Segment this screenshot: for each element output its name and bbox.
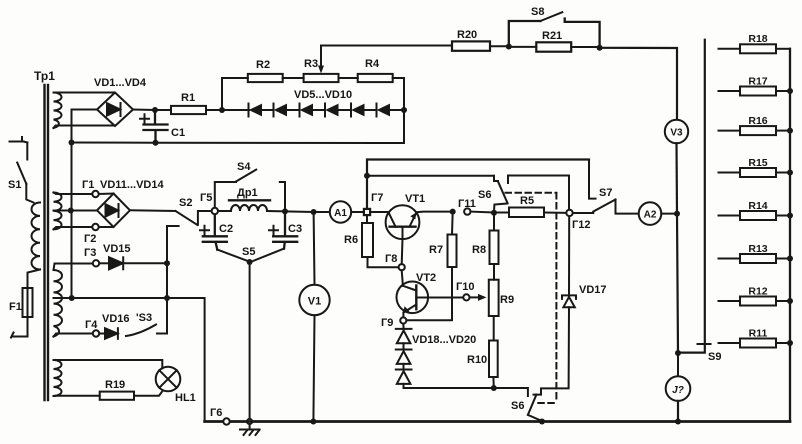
svg-text:S6: S6 <box>511 400 524 412</box>
node bus/winding B middle tap <box>68 208 74 214</box>
wire R5 to G12 <box>544 212 566 214</box>
wire C3 node to A1 <box>285 210 330 213</box>
svg-text:R20: R20 <box>457 29 477 41</box>
diode VD20 <box>396 370 412 384</box>
svg-text:Др1: Др1 <box>237 187 258 199</box>
svg-text:Г6: Г6 <box>210 407 222 419</box>
wire R19 to lamp HL1 <box>134 391 163 396</box>
svg-text:R3: R3 <box>304 58 318 70</box>
wire S5 common down to ground <box>249 262 251 419</box>
wire G11 to R8 node and R5 <box>471 211 510 214</box>
node A2/V3 column junction <box>674 211 680 217</box>
node S6b/bottom bus junction <box>539 419 545 425</box>
G10 wiper arrow into R9 <box>469 294 486 301</box>
svg-text:Г5: Г5 <box>200 192 212 204</box>
switch S6 left contact step <box>494 176 498 181</box>
node R21/S8 left junction <box>506 44 512 50</box>
wire line y=298 to corner x=204.6 <box>72 298 205 422</box>
wire VD17 to S6b contact <box>534 307 570 394</box>
terminal G6 <box>223 418 229 424</box>
diode VD15 <box>109 257 123 269</box>
wire winding D bottom to resistor R19 <box>54 395 100 397</box>
wire riser to R2 row <box>222 78 248 110</box>
svg-text:S6: S6 <box>478 189 491 201</box>
svg-text:A2: A2 <box>644 210 657 221</box>
wire top line 3 (S6 right contact to G12 column) <box>508 176 569 210</box>
svg-text:S4: S4 <box>237 161 251 173</box>
resistor R4 <box>358 74 393 82</box>
svg-text:Г9: Г9 <box>381 317 393 329</box>
node R10 bottom junction <box>491 385 497 391</box>
voltmeter V1 <box>299 285 329 315</box>
svg-text:R2: R2 <box>256 59 270 71</box>
wire R10 to bottom node <box>492 377 494 388</box>
wire bridge1 right vertex to R1 <box>133 109 171 112</box>
svg-text:Г2: Г2 <box>84 233 96 245</box>
R3 wiper arrow to top wire <box>318 46 324 74</box>
wire VD15 to x167 node <box>123 262 167 264</box>
wire G12 down to VD17 <box>568 216 570 295</box>
switch S8 branch left riser <box>509 21 541 47</box>
node R2 branch junction <box>219 107 225 113</box>
wire return bus y=143 <box>72 142 405 145</box>
capacitor C3 <box>273 214 297 248</box>
secondary winding B <box>54 193 62 230</box>
terminal G11 <box>464 208 470 214</box>
wire R7 bottom to emitter node G9 <box>406 267 452 320</box>
svg-text:VD17: VD17 <box>579 284 607 296</box>
ammeter A1 <box>330 201 351 222</box>
capacitor C2 polarity plus <box>200 226 209 235</box>
node R8 top junction <box>491 210 497 216</box>
svg-text:S8: S8 <box>531 6 544 18</box>
svg-text:VD11...VD14: VD11...VD14 <box>100 179 164 191</box>
wire R10 node to S6b left contact <box>494 388 528 396</box>
resistor R16 row <box>719 126 794 135</box>
wire top line 2 (to S6 left contact) <box>367 175 494 177</box>
selector common line S9 <box>678 40 705 353</box>
svg-text:Г11: Г11 <box>458 198 476 210</box>
bridge rectifier VD11...VD14 <box>97 194 130 228</box>
terminal G5 <box>212 208 218 214</box>
svg-text:VD15: VD15 <box>103 243 131 255</box>
node C1 top junction <box>152 107 158 113</box>
resistor R14 row <box>719 211 794 220</box>
svg-text:R21: R21 <box>542 30 562 42</box>
wire G1 to bridge2 top vertex <box>99 193 114 196</box>
svg-text:'S3: 'S3 <box>136 312 152 324</box>
diode VD10 <box>377 104 391 117</box>
switch S3 blade <box>126 325 156 337</box>
wire VT1 right lead to R7 node <box>417 211 453 214</box>
wire bridge1 left vertex to vertical bus <box>72 109 98 111</box>
wire G5 to inductor Dr1 <box>218 210 231 212</box>
svg-text:R5: R5 <box>520 195 534 207</box>
resistor R5 <box>509 208 544 218</box>
svg-text:C3: C3 <box>288 223 302 235</box>
node C3/S4 junction <box>282 208 288 214</box>
terminal G2 <box>92 224 98 230</box>
wire winding B top tap to terminal G1 <box>54 193 96 195</box>
switch S6b blade to bottom bus node <box>528 415 542 421</box>
terminal G9 <box>400 317 406 323</box>
diode VD9 <box>351 104 365 117</box>
node bus/line298 corner <box>69 295 75 301</box>
ground tap circle on bottom bus <box>247 419 252 424</box>
svg-text:R12: R12 <box>748 286 767 298</box>
wire R8 to R9 <box>493 264 495 280</box>
fuse F1 <box>23 288 33 317</box>
wire R3 wiper to R20 <box>321 45 452 47</box>
wire R2 to R3 <box>283 77 304 79</box>
wire top line 1 (G7 column to S7 contact) <box>367 160 589 212</box>
capacitor C1 <box>144 110 168 143</box>
switch S4 right stub down to node <box>280 182 285 211</box>
wire VT2 base to G10 <box>416 297 463 299</box>
inductor Dr1 winding <box>231 205 267 211</box>
wire winding B middle tap to bridge2 left vertex <box>54 210 98 212</box>
switch S7 blade <box>593 200 615 212</box>
wire R20 to node <box>490 45 509 47</box>
svg-text:R7: R7 <box>429 244 443 256</box>
switch S5 left blade <box>217 250 249 262</box>
node C1 bottom / bus junction <box>153 140 159 146</box>
wire S1 to primary winding <box>26 184 33 203</box>
ammeter A2 <box>639 202 662 225</box>
terminal G8 <box>399 264 405 270</box>
diode VD7 <box>300 104 314 117</box>
svg-text:Г7: Г7 <box>371 192 383 204</box>
svg-text:S7: S7 <box>599 187 612 199</box>
node line2 tap on G7 column <box>364 173 370 179</box>
right bus of ladder <box>789 49 791 422</box>
resistor R11 row <box>719 339 794 348</box>
diode VD19 <box>396 350 412 364</box>
dashed linkage S6 lower horizontal <box>538 402 556 404</box>
wire G12 to S7 blade pivot <box>573 212 594 214</box>
dashed linkage S6 upper horizontal <box>506 192 557 194</box>
svg-text:V1: V1 <box>308 296 321 308</box>
terminal G7 <box>364 209 370 215</box>
node VT1/R7/G11 junction <box>450 209 456 215</box>
node R21/S8 right junction <box>597 45 603 51</box>
terminal G1 <box>92 191 98 197</box>
svg-text:A1: A1 <box>334 208 347 219</box>
wire bridge2 right vertex to S2 <box>130 209 176 212</box>
transistor VT2 <box>397 282 429 314</box>
secondary winding D (lamp heater) <box>54 360 62 396</box>
primary winding of Tp1 <box>31 203 40 270</box>
terminal G4 <box>93 330 99 336</box>
wire J2 to bottom bus <box>677 401 679 422</box>
diode VD18 <box>396 329 412 343</box>
diode VD5 <box>249 104 263 117</box>
resistor R18 row <box>719 44 791 53</box>
svg-text:J?: J? <box>672 385 684 396</box>
svg-text:Г10: Г10 <box>456 281 474 293</box>
wire S7 to A2 <box>616 200 639 214</box>
wire diode chain to R10 node <box>404 384 494 388</box>
svg-text:R14: R14 <box>748 200 767 212</box>
svg-text:VT1: VT1 <box>405 193 425 205</box>
switch S2 fixed contact to G5 <box>198 211 212 225</box>
svg-text:R15: R15 <box>748 157 767 169</box>
wire VD18 to VD19 <box>403 343 405 349</box>
switch S8 right side <box>565 19 600 48</box>
svg-text:R18: R18 <box>748 33 767 45</box>
bottom bus <box>205 420 790 423</box>
svg-text:VT2: VT2 <box>416 272 436 284</box>
wire Dr1 to C3 node <box>267 210 285 212</box>
wire R9 to R10 <box>493 316 495 341</box>
wire winding B bottom tap to terminal G2 <box>54 227 96 229</box>
resistor R3 (rheostat) <box>304 74 339 82</box>
wire fuse to bottom prong <box>11 317 28 338</box>
meter J2 <box>666 376 691 401</box>
wire R3 to R4 <box>339 77 358 79</box>
diode VD6 <box>274 104 288 117</box>
wire winding A top to bridge VD1..VD4 top vertex <box>54 92 114 94</box>
switch S8 blade <box>540 12 562 21</box>
wire VT2 emitter to G9 <box>402 313 404 318</box>
wire ground stub <box>249 424 251 429</box>
switch S7 upper contact <box>589 160 596 199</box>
secondary winding A (top) <box>54 93 62 129</box>
svg-text:R16: R16 <box>748 115 767 127</box>
switch S6b blade <box>528 395 537 415</box>
wire A2 node down to S9 node <box>677 214 678 353</box>
switch S6 blade <box>498 182 508 204</box>
zener diode VD17 <box>562 295 576 307</box>
mains plug prong top <box>10 137 28 143</box>
wire R1 to diode row <box>206 109 249 111</box>
svg-text:V3: V3 <box>670 128 683 139</box>
switch S2 alternate lower contact bracket <box>167 226 179 240</box>
resistor R12 row <box>719 297 794 306</box>
wire S9 node to meter J2 <box>677 353 679 376</box>
wire G9 to diode chain <box>402 324 404 329</box>
svg-text:R4: R4 <box>365 58 380 70</box>
svg-text:Г8: Г8 <box>385 253 397 265</box>
dashed linkage S6 vertical <box>555 193 557 403</box>
wire R6 bottom to G8 <box>368 257 399 267</box>
resistor R21 <box>536 42 571 51</box>
svg-text:R13: R13 <box>748 243 767 255</box>
resistor R9 <box>489 280 499 316</box>
node S5 common <box>247 259 253 265</box>
lamp HL1 <box>156 367 181 392</box>
diode VD8 <box>325 104 339 117</box>
svg-text:R17: R17 <box>748 76 767 88</box>
svg-text:C2: C2 <box>219 223 233 235</box>
wire node to R8 <box>493 213 495 231</box>
svg-text:R10: R10 <box>467 354 487 366</box>
resistor R2 <box>248 74 283 82</box>
svg-text:R11: R11 <box>749 328 768 340</box>
svg-text:Г4: Г4 <box>85 319 98 331</box>
resistor R1 <box>171 106 206 114</box>
vertical bus left (x=71.5) <box>71 110 73 299</box>
svg-text:VD18...VD20: VD18...VD20 <box>412 334 476 346</box>
svg-text:HL1: HL1 <box>175 392 196 404</box>
terminal G3 <box>93 260 99 266</box>
wire winding A bottom to bridge VD1..VD4 bottom vertex <box>54 126 114 129</box>
svg-text:F1: F1 <box>9 301 22 313</box>
switch S3 fixed contact stub <box>157 333 167 335</box>
wire VT1 base to G8 <box>401 239 404 264</box>
wire R21 to right node <box>571 46 599 48</box>
diode VD16 <box>105 328 118 339</box>
resistor R13 row <box>719 254 794 263</box>
svg-text:S9: S9 <box>708 351 721 363</box>
capacitor C1 polarity plus <box>140 114 149 123</box>
capacitor C2 <box>203 214 227 249</box>
svg-text:R8: R8 <box>472 244 486 256</box>
secondary winding C <box>54 270 63 337</box>
terminal G10 <box>463 294 469 300</box>
switch S1 <box>17 163 26 184</box>
switch S5 right blade <box>250 249 284 262</box>
transformer Tp1 core <box>45 85 49 400</box>
resistor R7 <box>448 235 457 268</box>
wire V3 to A2 node <box>675 143 678 213</box>
svg-text:C1: C1 <box>171 127 185 139</box>
svg-text:VD5...VD10: VD5...VD10 <box>294 89 352 101</box>
resistor R6 <box>362 215 373 257</box>
wire G8 to VT2 collector <box>402 270 403 286</box>
wire A1 to G7 <box>351 211 364 213</box>
switch S4 branch left riser from G5 <box>215 182 236 208</box>
resistor R19 <box>100 392 134 400</box>
svg-text:VD1...VD4: VD1...VD4 <box>94 77 147 89</box>
wire V1 to bottom bus <box>313 315 314 421</box>
wire diode row segments <box>262 109 404 111</box>
switch S2 blade <box>176 211 198 225</box>
ground symbol <box>240 430 260 436</box>
node J2/bottom bus junction <box>675 419 681 425</box>
node V1 branch junction <box>311 209 317 215</box>
wire winding D top to lamp HL1 <box>54 360 163 368</box>
wire VD19 to VD20 <box>403 364 405 370</box>
wire V1 branch upper <box>313 212 316 285</box>
wire A2 to V3 column <box>661 213 677 215</box>
transistor VT1 <box>386 205 420 239</box>
svg-text:Г3: Г3 <box>84 247 96 259</box>
switch S9 wiper bar <box>698 343 711 345</box>
svg-text:S1: S1 <box>8 179 21 191</box>
svg-text:R9: R9 <box>500 294 514 306</box>
wire mains top to S1 <box>26 143 28 160</box>
node bus/bus142 junction <box>69 140 75 146</box>
svg-text:R1: R1 <box>181 92 195 104</box>
svg-text:S5: S5 <box>242 246 255 258</box>
voltmeter V3 <box>665 120 688 143</box>
resistor R8 <box>490 231 499 265</box>
node x167/line298 crossing <box>164 295 170 301</box>
bridge rectifier VD1...VD4 <box>97 93 133 127</box>
wire winding C top tap to terminal G3 <box>54 264 94 271</box>
wire winding C middle tap to bus node <box>54 297 72 299</box>
node diode row right junction <box>401 107 407 113</box>
wire R4 right to corner down <box>393 78 404 143</box>
svg-text:R6: R6 <box>344 234 358 246</box>
resistor R15 row <box>719 168 794 177</box>
resistor R20 <box>452 41 490 50</box>
svg-text:S2: S2 <box>179 197 192 209</box>
wire G7 to VT1 <box>370 211 389 213</box>
wire G2 to bridge2 bottom vertex <box>99 226 114 228</box>
svg-text:Тр1: Тр1 <box>34 69 55 83</box>
svg-text:Г12: Г12 <box>572 219 590 231</box>
wire G4 to VD16 <box>99 333 105 335</box>
wire G3 to VD15 <box>99 262 109 264</box>
switch S6 blade link to main node <box>494 204 508 212</box>
terminal G12 <box>566 210 572 216</box>
wire node to R7 <box>451 212 454 235</box>
resistor R10 <box>489 341 498 378</box>
inductor Dr1 core bar <box>229 199 270 201</box>
wire primary to fuse <box>28 270 41 289</box>
wire top right to V3 column <box>600 48 677 120</box>
switch S4 blade <box>236 170 256 182</box>
svg-text:R19: R19 <box>105 379 125 391</box>
node S9 junction <box>675 350 681 356</box>
wire winding C bottom tap to terminal G4 <box>54 334 94 337</box>
svg-text:Г1: Г1 <box>82 179 94 191</box>
capacitor C3 polarity plus <box>269 226 278 235</box>
node VD15/x167 junction <box>164 260 170 266</box>
node V1/bottom bus junction <box>310 419 316 425</box>
resistor R17 row <box>719 87 794 96</box>
wire vertical x=167 (S2 contact to VD15 line to S3 contact) <box>166 240 168 334</box>
svg-text:VD16: VD16 <box>102 313 130 325</box>
wire node to R21 <box>509 46 537 48</box>
